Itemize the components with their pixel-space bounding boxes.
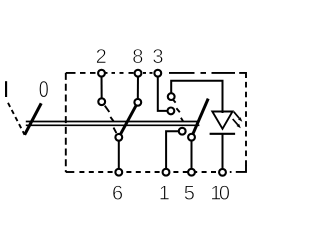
wire terminal 3 lead to contact xyxy=(158,73,171,111)
svg-text:2: 2 xyxy=(96,46,107,68)
LED indicator lamp xyxy=(210,112,236,134)
svg-text:5: 5 xyxy=(184,182,195,204)
dashed enclosure bottom-left corner foot xyxy=(66,171,75,173)
lever position 0 (solid actuator arm) xyxy=(25,103,42,135)
pivot contact D (to terminal 5) xyxy=(188,134,195,141)
terminal 2 xyxy=(98,70,105,77)
wire pivot A to terminal 6 xyxy=(118,137,120,172)
contact circle under terminal 8 xyxy=(134,99,141,106)
svg-text:3: 3 xyxy=(152,46,163,68)
dashed enclosure left edge xyxy=(65,73,67,172)
dashed enclosure bottom edge xyxy=(79,171,231,173)
wire terminal 8 lead xyxy=(137,73,139,102)
wire contact to LED anode xyxy=(171,81,222,113)
LED light arrow 1 xyxy=(234,112,243,122)
terminal 5 xyxy=(188,169,195,176)
LED light arrow 2 xyxy=(233,119,241,128)
contact circle under terminal 2 xyxy=(98,98,105,105)
terminal 8 xyxy=(135,70,142,77)
terminal 1 xyxy=(163,169,170,176)
lever position I (dashed actuator arm) xyxy=(8,103,25,135)
wire LED cathode to terminal 10 xyxy=(222,134,224,172)
dashed enclosure top edge (dash-dot part) xyxy=(169,73,246,78)
contact circle C (to terminal 1) xyxy=(179,128,186,135)
dashed enclosure bottom-right corner xyxy=(236,166,246,172)
moving contact arm pole A (8 to 6, closed) xyxy=(119,102,138,137)
dashed enclosure top edge (left dashed part) xyxy=(66,72,153,74)
wire terminal 2 lead xyxy=(101,73,103,102)
contact circle B (to terminal 3) xyxy=(168,108,175,115)
contact circle A (to LED) xyxy=(168,93,175,100)
pivot contact A (to terminal 6) xyxy=(115,134,122,141)
terminal 3 xyxy=(154,70,161,77)
svg-text:1: 1 xyxy=(159,182,170,204)
moving contact arm pole B (open) xyxy=(192,99,209,138)
actuator bar (mechanical coupling, double line) xyxy=(26,122,200,126)
svg-text:0: 0 xyxy=(39,76,49,102)
phantom arm pole B (open position dashes) xyxy=(173,99,183,121)
svg-text:8: 8 xyxy=(132,46,143,68)
terminal 10 xyxy=(219,169,226,176)
svg-text:I: I xyxy=(3,76,9,102)
wire contact C to terminal 1 xyxy=(166,131,182,172)
dashed enclosure right edge xyxy=(245,82,247,167)
terminal 6 xyxy=(115,169,122,176)
phantom arm pole A (2 to 6, open position dashes) xyxy=(105,106,117,133)
wire pivot D to terminal 5 xyxy=(191,137,193,172)
svg-text:10: 10 xyxy=(210,182,230,204)
svg-text:6: 6 xyxy=(112,182,123,204)
